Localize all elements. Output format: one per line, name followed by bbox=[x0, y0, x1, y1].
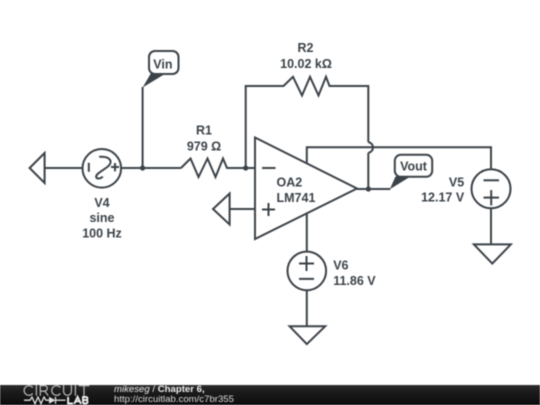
svg-text:LM741: LM741 bbox=[277, 191, 316, 205]
svg-text:R2: R2 bbox=[298, 41, 314, 55]
svg-text:V4: V4 bbox=[94, 196, 109, 210]
svg-text:R1: R1 bbox=[196, 124, 212, 138]
svg-text:10.02 kΩ: 10.02 kΩ bbox=[280, 57, 332, 71]
svg-text:Vout: Vout bbox=[400, 160, 428, 174]
svg-text:V6: V6 bbox=[333, 258, 348, 272]
svg-text:979 Ω: 979 Ω bbox=[187, 139, 221, 153]
svg-text:11.86 V: 11.86 V bbox=[333, 274, 376, 288]
svg-text:V5: V5 bbox=[449, 176, 464, 190]
svg-text:100 Hz: 100 Hz bbox=[82, 227, 122, 241]
svg-text:Vin: Vin bbox=[153, 58, 172, 72]
svg-text:OA2: OA2 bbox=[277, 176, 303, 190]
svg-text:sine: sine bbox=[89, 211, 114, 225]
svg-text:12.17 V: 12.17 V bbox=[421, 191, 465, 205]
